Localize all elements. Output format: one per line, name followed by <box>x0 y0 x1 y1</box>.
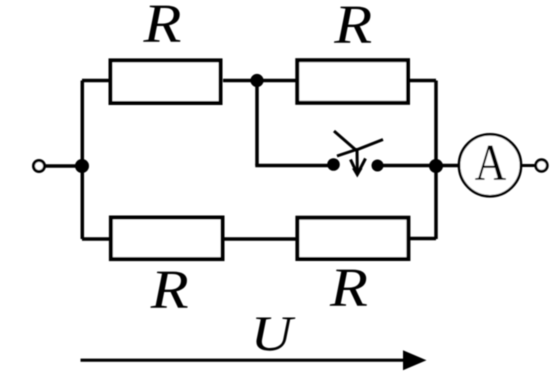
wire switch right to node C <box>383 164 436 168</box>
terminal right <box>536 160 548 172</box>
ammeter A1 <box>459 134 521 196</box>
wire R4 right <box>407 237 436 241</box>
wire ammeter to right terminal <box>521 164 537 167</box>
wire R2 right <box>407 79 436 83</box>
resistor R4 (bottom right) <box>297 218 408 259</box>
resistor R1 (top left) <box>111 60 221 103</box>
switch S1 actuation arrow shaft <box>356 148 359 171</box>
wire R1 right to node B <box>223 79 298 83</box>
resistor R3 (bottom left) <box>111 218 223 260</box>
node left junction <box>75 159 89 173</box>
wire to resistor R1 left <box>82 79 112 83</box>
svg-text:A: A <box>475 135 507 192</box>
wire to switch left <box>255 164 333 168</box>
node C junction <box>429 159 443 173</box>
voltage arrow head <box>403 350 427 370</box>
wire node C to ammeter <box>436 164 461 168</box>
wire to resistor R3 left <box>82 237 112 241</box>
switch S1 actuation arrow head left wing <box>351 160 356 171</box>
wire node B down <box>255 81 259 166</box>
switch S1 actuation arrow head tip <box>352 169 363 178</box>
resistor R2 (top right) <box>297 60 408 103</box>
wire right vertical <box>434 81 438 240</box>
svg-text:R: R <box>142 0 181 54</box>
switch S1 actuation arrow head right wing <box>360 159 366 171</box>
switch S1 blade lower stub <box>337 150 355 156</box>
wire left vertical <box>81 81 85 240</box>
switch S1 contact right <box>372 160 384 172</box>
svg-text:R: R <box>333 0 372 55</box>
voltage arrow shaft <box>81 359 411 362</box>
svg-text:R: R <box>150 259 189 320</box>
svg-text:R: R <box>329 257 368 318</box>
wire left terminal to node <box>45 164 83 168</box>
svg-text:U: U <box>251 305 296 361</box>
switch S1 blade to upper right <box>355 140 383 151</box>
switch S1 contact left <box>327 158 340 171</box>
wire R3 to R4 <box>221 237 298 241</box>
switch S1 blade upper diagonal <box>334 131 357 151</box>
node B junction <box>250 74 263 87</box>
terminal left <box>34 161 45 172</box>
